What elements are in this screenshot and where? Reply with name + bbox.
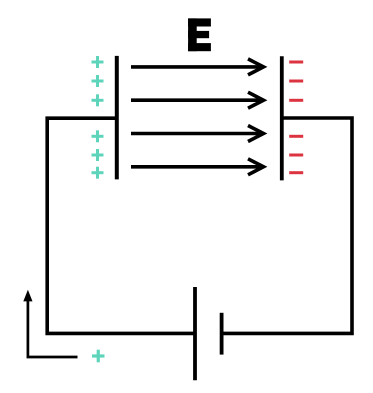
wire from left plate to battery positive terminal xyxy=(47,118,194,333)
positive charges on left plate xyxy=(92,56,104,179)
negative charges on right plate xyxy=(289,62,303,173)
plus sign near current arrow xyxy=(92,350,105,363)
battery negative terminal (short line) xyxy=(220,313,224,355)
field arrow 4 xyxy=(131,159,264,175)
field arrow 1 xyxy=(131,59,264,75)
field label E xyxy=(188,18,211,51)
field arrow 2 xyxy=(131,92,264,108)
battery positive terminal (long line) xyxy=(193,287,197,380)
capacitor right plate (negative) xyxy=(280,56,284,180)
current direction arrow xyxy=(23,290,77,357)
wire from right plate to battery negative terminal xyxy=(223,118,353,333)
field arrow 3 xyxy=(131,126,264,142)
capacitor left plate (positive) xyxy=(115,56,119,179)
